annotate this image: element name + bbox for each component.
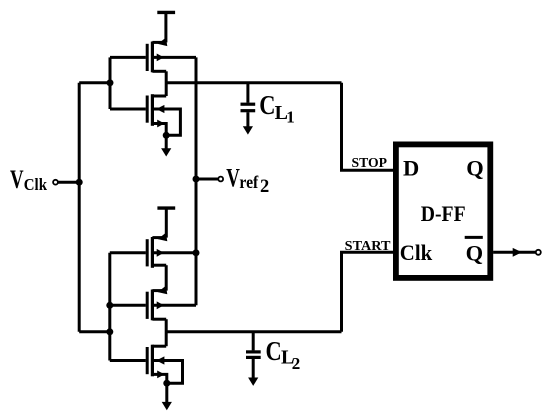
svg-text:V: V: [226, 163, 240, 193]
label Qbar (pin): [466, 240, 484, 265]
svg-text:Clk: Clk: [24, 175, 48, 194]
svg-text:1: 1: [286, 108, 295, 127]
gate bus bottom cell: [79, 253, 110, 361]
junction dot gate bus / VClk branch: [107, 79, 114, 86]
gate bus top cell: [79, 57, 110, 109]
ground arrow bottom cell: [162, 402, 172, 410]
svg-text:Q: Q: [466, 156, 484, 181]
Qbar output wire: [493, 251, 536, 254]
label Clk (pin): [400, 240, 433, 265]
label Vref2: [226, 163, 269, 197]
svg-text:STOP: STOP: [352, 156, 388, 171]
Vref2 terminal open circle: [218, 177, 223, 182]
junction dot VClk bottom tap: [106, 328, 113, 335]
label STOP: [352, 156, 388, 171]
svg-text:2: 2: [292, 354, 301, 373]
wire M3 drain to M4 source: [165, 265, 168, 290]
label D (pin): [403, 156, 419, 181]
label D-FF: [421, 201, 466, 226]
svg-text:2: 2: [260, 177, 269, 197]
svg-text:Q: Q: [466, 240, 484, 265]
transistor M3 PMOS bottom cell: [110, 233, 196, 268]
label Q (pin): [466, 156, 484, 181]
output wire top cell: [166, 81, 341, 84]
VClk terminal open circle: [53, 180, 58, 185]
START wire to Clk input: [342, 252, 394, 331]
label CL1: [259, 90, 294, 127]
label CL2: [266, 336, 301, 373]
transistor M5 NMOS bottom cell: [110, 345, 183, 402]
svg-text:START: START: [345, 239, 391, 254]
label START: [345, 239, 391, 254]
transistor M2 NMOS top cell: [110, 94, 180, 148]
VClk vertical bus: [78, 83, 81, 332]
svg-text:C: C: [266, 336, 282, 366]
label VClk: [10, 164, 48, 194]
svg-text:C: C: [259, 90, 275, 120]
arrowhead on output: [513, 248, 522, 257]
junction dot M3 bulk on Vref bus: [193, 249, 200, 256]
capacitor CL2: [246, 332, 261, 386]
Vref2 terminal wire: [196, 178, 218, 181]
svg-text:D: D: [403, 156, 419, 181]
Vref2 vertical bus: [195, 57, 198, 305]
wire M1 drain to M2 drain (output node): [165, 71, 168, 96]
wire M4 drain to M5 drain (output node bottom): [165, 319, 168, 346]
svg-text:V: V: [10, 164, 24, 194]
STOP wire to D input: [342, 83, 394, 170]
transistor M4 PMOS bottom cell: [110, 286, 196, 321]
Qbar overline: [465, 236, 483, 239]
output wire bottom cell: [166, 330, 341, 333]
ground arrow top cell: [161, 148, 171, 156]
capacitor CL1: [241, 83, 256, 135]
junction dot Vref2 tap: [193, 176, 200, 183]
supply VDD top: [157, 12, 175, 42]
transistor M1 PMOS top cell: [110, 38, 196, 73]
junction dot M5 source/bulk: [163, 380, 170, 387]
svg-text:Clk: Clk: [400, 240, 433, 265]
output terminal open circle: [536, 250, 541, 255]
junction dot VClk tap: [76, 179, 83, 186]
junction dot M4 gate tap: [106, 302, 113, 309]
junction dot M2 source/bulk: [163, 132, 170, 139]
VClk terminal wire: [58, 181, 79, 184]
supply VDD bottom: [157, 208, 175, 238]
D-FF box: [396, 144, 490, 278]
svg-text:D-FF: D-FF: [421, 201, 466, 226]
svg-text:ref: ref: [239, 172, 259, 192]
